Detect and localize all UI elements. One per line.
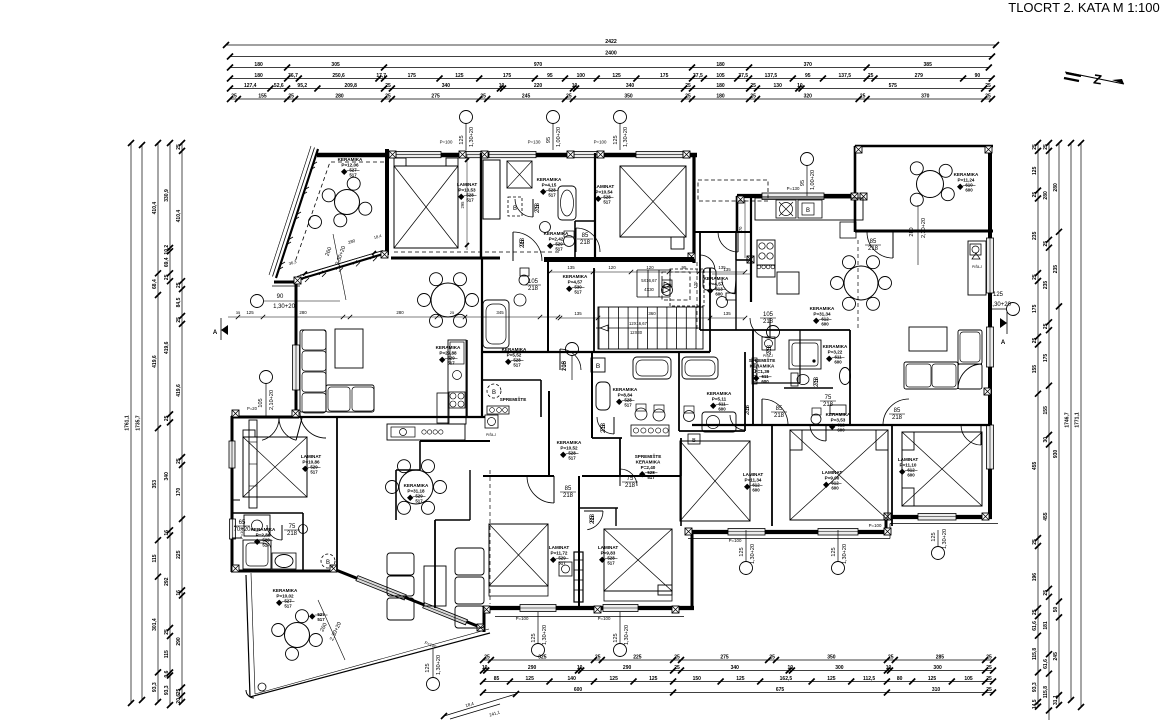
- door bath left unit: [267, 525, 282, 540]
- bath left-unit sink: [272, 553, 296, 569]
- wall y470 center: [396, 469, 420, 471]
- double bed P=9,00: [790, 430, 888, 520]
- window leader bottom right: [739, 530, 756, 575]
- bed pillow f: [902, 432, 914, 506]
- svg-text:181: 181: [1043, 621, 1049, 630]
- bed bedroom P=10,86: [243, 437, 307, 497]
- svg-text:20,6: 20,6: [176, 694, 182, 704]
- wc P=2,42 toilet: [564, 231, 575, 247]
- door label unit3 bath: [771, 406, 787, 419]
- door label unit3 bath2: [814, 376, 820, 387]
- wall x745 bath511 right: [744, 352, 746, 431]
- bath unit2 shower: [507, 161, 532, 188]
- terrace BL leader: [424, 640, 442, 690]
- svg-text:25: 25: [868, 73, 874, 79]
- window leader kitchen3: [800, 153, 816, 197]
- svg-text:A: A: [1001, 340, 1006, 346]
- terrace TL extra chair: [309, 216, 322, 229]
- label bath 8,84: [613, 387, 638, 408]
- svg-text:12X30: 12X30: [630, 330, 643, 335]
- door wc 75/218: [810, 425, 826, 441]
- facade line bottom: [495, 616, 684, 618]
- spremiste left label: [500, 395, 527, 402]
- right overall dim 1771,1: [1075, 140, 1085, 710]
- door bedroom 11,34: [762, 399, 788, 425]
- window top small b: [574, 152, 597, 158]
- svg-text:KERAMIKA: KERAMIKA: [707, 391, 732, 396]
- door unit3 105/218: [750, 318, 770, 338]
- door label stair hall: [525, 279, 541, 292]
- wall bedroom divider x772: [771, 425, 773, 526]
- svg-text:A: A: [213, 330, 218, 336]
- svg-text:10: 10: [577, 665, 583, 671]
- svg-text:LAMINAT: LAMINAT: [549, 545, 570, 550]
- door label unit3 entry: [760, 312, 776, 325]
- door hallway 105/218: [560, 349, 581, 370]
- wall corner hatch: [594, 606, 601, 613]
- svg-text:75: 75: [627, 476, 634, 482]
- door label 95/218: [520, 237, 526, 248]
- svg-text:225: 225: [176, 550, 182, 559]
- exterior wall top unit3 y196: [737, 194, 858, 198]
- exterior wall y416 left: [231, 416, 299, 419]
- svg-text:600: 600: [831, 486, 839, 491]
- label hall 4,57 left: [563, 274, 588, 295]
- svg-text:250,6: 250,6: [332, 73, 345, 79]
- svg-text:245: 245: [522, 93, 531, 99]
- svg-text:517: 517: [574, 290, 582, 295]
- svg-text:235: 235: [1053, 265, 1059, 274]
- window right c: [987, 425, 994, 469]
- svg-text:305: 305: [331, 62, 340, 68]
- svg-text:125: 125: [425, 663, 431, 672]
- door label wc2: [820, 395, 836, 408]
- svg-text:90: 90: [975, 73, 981, 79]
- wall bedroom1/bath x483: [480, 153, 482, 258]
- label bath 4,15: [537, 177, 562, 198]
- kitchen living1 sink detail: [450, 342, 464, 380]
- bath left-unit boiler: [321, 554, 335, 568]
- svg-text:218: 218: [590, 513, 596, 524]
- wardrobe dashed: [662, 180, 768, 330]
- svg-text:575: 575: [889, 83, 898, 89]
- leader 105 130 stair: [566, 343, 579, 381]
- spremiste left B circle: [487, 384, 501, 398]
- svg-text:KERAMIKA: KERAMIKA: [750, 363, 775, 368]
- unit3 bath shower: [789, 340, 821, 369]
- pisilj symbol b: [559, 562, 572, 576]
- door label hallway: [562, 360, 568, 371]
- door corridor 85/218: [576, 228, 600, 252]
- svg-text:25: 25: [1032, 609, 1038, 615]
- svg-text:16: 16: [164, 530, 170, 536]
- svg-text:235: 235: [1043, 281, 1049, 290]
- terrace top-left outer diagonal: [269, 146, 318, 278]
- left unit wardrobe: [249, 420, 257, 508]
- svg-text:517: 517: [310, 470, 318, 475]
- wall corner hatch: [747, 256, 754, 263]
- exterior wall top (upper-left unit): [317, 153, 697, 158]
- bed bedroom P=9,83: [604, 529, 672, 591]
- exterior wall y571: [231, 570, 337, 573]
- svg-text:115: 115: [152, 554, 158, 562]
- svg-text:2422: 2422: [605, 39, 617, 45]
- label bedroom 9,00: [822, 470, 843, 491]
- left dim column 4: [164, 140, 173, 708]
- svg-text:30: 30: [1043, 437, 1049, 443]
- svg-text:25: 25: [595, 654, 601, 660]
- svg-text:600: 600: [752, 488, 760, 493]
- svg-text:600: 600: [718, 407, 726, 412]
- svg-text:25: 25: [1032, 192, 1038, 198]
- svg-text:360: 360: [648, 311, 656, 316]
- stair wall bottom y352: [483, 351, 710, 353]
- svg-text:353: 353: [152, 480, 158, 489]
- label bath 5,11: [707, 391, 732, 412]
- svg-text:105: 105: [528, 279, 539, 285]
- svg-text:218: 218: [562, 360, 568, 371]
- svg-text:25: 25: [1032, 338, 1038, 344]
- svg-text:95: 95: [800, 180, 806, 186]
- wall corner hatch: [481, 151, 488, 158]
- facade line bottom right: [688, 524, 998, 539]
- svg-text:1761,1: 1761,1: [125, 415, 131, 431]
- interior vdim unit3 dining: [693, 238, 700, 330]
- svg-text:419,6: 419,6: [176, 384, 182, 397]
- bath center toilet: [519, 268, 529, 285]
- wall corner hatch: [851, 193, 858, 200]
- svg-text:25: 25: [750, 93, 756, 99]
- svg-text:170: 170: [176, 488, 182, 497]
- wall x396 center: [395, 470, 397, 520]
- dashed line unit3: [857, 240, 859, 330]
- svg-text:95,2: 95,2: [297, 83, 307, 89]
- svg-text:140: 140: [568, 676, 577, 682]
- window top P=100 b: [636, 152, 683, 158]
- door label left bath: [284, 524, 300, 537]
- svg-text:600: 600: [821, 322, 829, 327]
- svg-text:93,3: 93,3: [1032, 682, 1038, 692]
- spremiste closet walls: [620, 438, 681, 476]
- svg-text:LAMINAT: LAMINAT: [898, 457, 919, 462]
- svg-text:150: 150: [693, 676, 702, 682]
- bath center sink: [514, 294, 526, 306]
- wall bath/bedroom2 x595: [594, 153, 596, 259]
- door bedroom left unit a: [256, 418, 279, 440]
- door unit3 terrace side: [867, 232, 893, 258]
- svg-text:25: 25: [986, 665, 992, 671]
- left overall dim 1761,1: [125, 140, 135, 706]
- svg-text:KERAMIKA: KERAMIKA: [823, 344, 848, 349]
- bottom dim row 2: [480, 665, 996, 674]
- door entry unit3: [718, 232, 738, 252]
- svg-text:25: 25: [985, 83, 991, 89]
- unit3 bath small fixtures: [752, 358, 833, 388]
- svg-text:175: 175: [408, 73, 417, 79]
- wall y258 corridor left: [391, 257, 500, 260]
- dashed vertical center-bottom: [489, 470, 491, 604]
- svg-text:120: 120: [693, 281, 698, 289]
- wall x681 bedroom right: [680, 476, 682, 526]
- left door leader circle: [251, 294, 341, 310]
- svg-text:1,30+20: 1,30+20: [624, 625, 630, 645]
- svg-text:25: 25: [750, 83, 756, 89]
- svg-text:25: 25: [450, 310, 455, 315]
- svg-text:93,3: 93,3: [152, 682, 158, 692]
- wall corner hatch: [688, 253, 695, 260]
- window leader bottom right: [831, 530, 848, 575]
- svg-text:KERAMIKA: KERAMIKA: [537, 177, 562, 182]
- svg-text:125: 125: [613, 633, 619, 642]
- svg-text:600: 600: [834, 360, 842, 365]
- svg-text:517: 517: [558, 561, 566, 566]
- window label P=100 bottom c: [869, 523, 882, 528]
- svg-text:125: 125: [827, 676, 836, 682]
- unit3 wall y263: [736, 259, 751, 261]
- svg-text:419,6: 419,6: [164, 341, 170, 354]
- right dim column 3: [1053, 140, 1062, 708]
- bath walls left unit: [232, 513, 303, 571]
- svg-text:10: 10: [788, 665, 794, 671]
- wall corner hatch: [381, 251, 388, 258]
- svg-text:330,9: 330,9: [164, 189, 170, 202]
- svg-text:218: 218: [625, 483, 636, 489]
- svg-text:36,7: 36,7: [288, 73, 298, 79]
- dim row 4: [227, 73, 995, 82]
- svg-text:419,6: 419,6: [152, 355, 158, 368]
- svg-text:B: B: [596, 363, 600, 370]
- left dim column 5: [176, 140, 185, 705]
- wall wc y221: [575, 220, 596, 222]
- svg-text:25: 25: [231, 93, 237, 99]
- svg-text:125: 125: [649, 676, 658, 682]
- svg-text:517: 517: [624, 403, 632, 408]
- label bedroom 10,53: [457, 182, 478, 203]
- svg-text:10: 10: [886, 665, 892, 671]
- svg-text:75: 75: [289, 524, 296, 530]
- svg-text:69,4: 69,4: [164, 257, 170, 267]
- wall corner hatch: [330, 565, 337, 572]
- svg-text:218: 218: [767, 344, 773, 355]
- terrace BL diagonal dim: [318, 600, 345, 660]
- svg-text:P=20: P=20: [247, 406, 258, 411]
- left dim column 3: [152, 140, 161, 705]
- entry recess wall y232: [694, 231, 751, 233]
- svg-text:LAMINAT: LAMINAT: [598, 545, 619, 550]
- svg-text:209,8: 209,8: [344, 83, 357, 89]
- label bath 3,22: [823, 344, 848, 365]
- svg-text:PIŠILJ: PIŠILJ: [486, 432, 496, 437]
- svg-text:175: 175: [1043, 354, 1049, 363]
- entry bath fixtures right: [703, 268, 736, 308]
- svg-text:1,30+20: 1,30+20: [469, 127, 475, 147]
- svg-text:115: 115: [164, 650, 170, 658]
- svg-text:KERAMIKA: KERAMIKA: [810, 306, 835, 311]
- entry hall walls center: [700, 232, 753, 330]
- svg-text:370: 370: [921, 93, 930, 99]
- svg-text:93,3: 93,3: [164, 685, 170, 695]
- label terrace BL code: [309, 612, 328, 622]
- right dim column 1: [1032, 140, 1041, 710]
- svg-text:340: 340: [442, 83, 451, 89]
- sofa group living2: [387, 548, 484, 628]
- dining table living1 bottom: [386, 460, 447, 515]
- svg-text:14,5: 14,5: [1032, 699, 1038, 709]
- bottom dim row 4: [480, 687, 996, 696]
- svg-text:P=130: P=130: [787, 186, 800, 191]
- leader 105 210+20 left: [247, 371, 275, 417]
- spremiste left walls: [483, 380, 541, 417]
- bottom dim row 3: [480, 676, 996, 685]
- window right b: [987, 327, 994, 367]
- wall x592 bath left: [591, 352, 593, 438]
- label bedroom 10,86: [301, 454, 322, 475]
- stair wall left x594: [593, 268, 595, 352]
- wall wc x575: [574, 221, 576, 258]
- svg-text:600: 600: [715, 292, 723, 297]
- svg-text:301,4: 301,4: [152, 618, 158, 631]
- pisilj symbol a: [485, 415, 498, 437]
- wardrobe dark bar: [574, 552, 583, 602]
- svg-text:25: 25: [566, 93, 572, 99]
- terrace TL round table: [322, 177, 372, 227]
- svg-text:280: 280: [909, 227, 915, 236]
- svg-text:25: 25: [164, 629, 170, 635]
- wall corner hatch: [683, 151, 690, 158]
- window bottom a: [520, 605, 556, 612]
- kitchen unit3 lower: [757, 240, 799, 294]
- dim row 3: [227, 62, 992, 71]
- svg-text:600: 600: [761, 379, 769, 384]
- svg-text:135: 135: [723, 311, 731, 316]
- entry bath fixtures left: [662, 280, 673, 296]
- svg-text:930: 930: [1053, 450, 1059, 459]
- svg-text:345: 345: [496, 310, 504, 315]
- wall corner hatch: [567, 151, 574, 158]
- svg-text:517: 517: [284, 604, 292, 609]
- wall y431 bath511 bottom: [679, 430, 745, 432]
- terrace parapet hatch marks: [278, 162, 377, 282]
- svg-text:25: 25: [176, 317, 182, 323]
- svg-text:280: 280: [335, 93, 344, 99]
- svg-text:25: 25: [1032, 144, 1038, 150]
- wall corner hatch: [232, 565, 239, 572]
- svg-text:105: 105: [763, 312, 774, 318]
- svg-text:25: 25: [176, 458, 182, 464]
- wall y416 right part: [350, 416, 485, 418]
- svg-text:KERAMIKA: KERAMIKA: [436, 345, 461, 350]
- exterior wall left x232: [231, 416, 234, 572]
- exterior wall left x296: [295, 283, 298, 417]
- window top P=100 a: [396, 152, 441, 158]
- svg-text:125: 125: [459, 135, 465, 144]
- svg-text:31,1: 31,1: [1053, 695, 1059, 705]
- bath 8,84 sink tall: [596, 382, 610, 410]
- kitchen unit3 top counter: [755, 198, 863, 238]
- svg-text:290: 290: [623, 665, 632, 671]
- svg-text:105: 105: [258, 398, 264, 407]
- svg-text:25: 25: [1043, 590, 1049, 596]
- svg-text:TLOCRT 2. KATA M 1:100: TLOCRT 2. KATA M 1:100: [1008, 0, 1160, 15]
- svg-text:125: 125: [739, 547, 745, 556]
- door label 85/218 top: [577, 233, 593, 246]
- wall x470: [469, 470, 471, 520]
- svg-text:125: 125: [613, 135, 619, 144]
- svg-text:B: B: [326, 560, 330, 566]
- label wc 3,53: [826, 412, 851, 433]
- svg-text:280: 280: [1043, 191, 1049, 200]
- svg-text:1,30+20: 1,30+20: [750, 544, 756, 564]
- bed bedroom P=10,53: [394, 166, 458, 248]
- svg-text:220: 220: [534, 83, 543, 89]
- svg-text:175: 175: [660, 73, 669, 79]
- unit3 bath toilet: [791, 373, 809, 386]
- svg-text:1,30+20: 1,30+20: [542, 625, 548, 645]
- svg-text:1,00+20: 1,00+20: [810, 170, 816, 190]
- wall corner hatch: [389, 151, 396, 158]
- dim row 6: [227, 93, 995, 102]
- svg-text:125: 125: [931, 532, 937, 541]
- svg-text:310: 310: [932, 687, 941, 693]
- svg-text:1,30+20: 1,30+20: [623, 127, 629, 147]
- svg-text:B: B: [806, 208, 810, 214]
- wall x736 below: [735, 260, 737, 330]
- svg-text:517: 517: [548, 193, 556, 198]
- terrace TR round table: [910, 162, 954, 206]
- svg-text:517: 517: [603, 200, 611, 205]
- window leader top 95: [546, 111, 562, 151]
- svg-text:LAMINAT: LAMINAT: [301, 454, 322, 459]
- wall corner hatch: [984, 388, 991, 395]
- section marker A left: [213, 318, 228, 340]
- svg-text:120: 120: [608, 265, 616, 270]
- svg-text:10: 10: [499, 83, 505, 89]
- svg-text:1,30+20: 1,30+20: [273, 304, 296, 310]
- svg-text:50: 50: [1053, 607, 1059, 613]
- exterior wall bottom right y517 right: [884, 515, 992, 519]
- wall corner hatch: [982, 513, 989, 520]
- svg-text:25: 25: [674, 665, 680, 671]
- svg-text:1771,1: 1771,1: [1075, 412, 1081, 428]
- svg-text:10,2: 10,2: [164, 245, 170, 255]
- label bedroom 10,54: [594, 184, 615, 205]
- svg-text:84,5: 84,5: [176, 297, 182, 307]
- exterior wall step x886: [885, 516, 888, 534]
- bedroom wall x340 left: [336, 417, 338, 571]
- svg-text:25: 25: [176, 689, 182, 695]
- svg-text:218: 218: [763, 319, 774, 325]
- svg-text:455: 455: [1032, 462, 1038, 471]
- dining table unit3: [831, 256, 892, 311]
- svg-text:95: 95: [546, 137, 552, 143]
- bath center tub: [483, 300, 509, 348]
- svg-text:95: 95: [547, 73, 553, 79]
- svg-text:SPREMIŠTE: SPREMIŠTE: [749, 356, 776, 363]
- svg-text:517: 517: [466, 198, 474, 203]
- svg-text:340: 340: [731, 665, 740, 671]
- svg-text:600: 600: [574, 687, 583, 693]
- svg-text:517: 517: [555, 247, 563, 252]
- window leader bottom: [531, 612, 548, 657]
- svg-text:1,30+20: 1,30+20: [942, 529, 948, 549]
- wc 3,53 fixtures: [811, 405, 846, 424]
- svg-text:350: 350: [624, 93, 633, 99]
- wall y259 corridor thick: [544, 257, 694, 262]
- svg-text:LAMINAT: LAMINAT: [822, 470, 843, 475]
- door label 75/218 up: [535, 202, 541, 213]
- window leader top 125: [459, 111, 475, 151]
- bed bedroom P=11,10: [902, 432, 982, 506]
